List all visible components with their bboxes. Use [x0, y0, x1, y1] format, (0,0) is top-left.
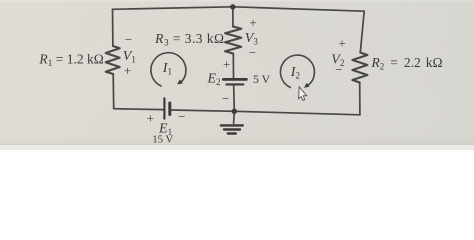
svg-text:−: −	[335, 62, 342, 77]
svg-text:+: +	[249, 15, 256, 30]
mouse cursor	[298, 87, 307, 101]
svg-text:−: −	[222, 91, 229, 106]
wire E1 to bottom junction	[171, 110, 234, 111]
ground bar 2	[224, 128, 240, 130]
svg-text:+: +	[338, 36, 345, 51]
svg-text:R3 = 3.3 kΩ: R3 = 3.3 kΩ	[154, 31, 224, 49]
svg-text:+: +	[147, 111, 154, 126]
svg-text:V1: V1	[123, 49, 136, 65]
svg-text:−: −	[249, 45, 256, 60]
wire left vertical upper	[112, 9, 114, 46]
ground stub	[233, 111, 236, 123]
battery E2 long plate	[223, 78, 246, 81]
ground bar 1	[221, 124, 243, 126]
junction node bottom	[232, 109, 237, 114]
mesh current loop I1	[151, 53, 186, 86]
battery E2 short plate	[226, 83, 243, 85]
ground bar 3	[228, 132, 236, 134]
resistor R1	[106, 46, 120, 74]
wire top-left to junction	[113, 7, 233, 10]
svg-text:+: +	[124, 63, 131, 78]
svg-text:R2=2.2kΩ: R2=2.2kΩ	[371, 55, 443, 72]
svg-text:5 V: 5 V	[253, 72, 271, 86]
battery E1 short plate	[168, 103, 171, 115]
wire left vertical lower	[112, 74, 115, 109]
wire bottom junction to bottom-right corner	[234, 111, 360, 115]
svg-text:I1: I1	[162, 61, 172, 77]
junction node top	[230, 4, 235, 9]
svg-text:E2: E2	[207, 71, 221, 87]
wire right vertical lower	[359, 83, 361, 115]
svg-text:+: +	[223, 57, 230, 72]
resistor R2	[352, 53, 367, 83]
wire right vertical upper	[360, 11, 364, 52]
svg-text:−: −	[178, 109, 185, 124]
svg-text:R1 = 1.2 kΩ: R1 = 1.2 kΩ	[38, 52, 103, 70]
mesh current loop I2	[280, 55, 314, 87]
svg-text:I2: I2	[290, 65, 300, 81]
svg-text:−: −	[125, 32, 132, 47]
resistor R3	[225, 27, 241, 54]
wire top junction to top-right corner	[233, 7, 364, 11]
wire E2 to bottom junction	[233, 86, 236, 111]
wire top junction down to R3	[232, 7, 234, 27]
wire bottom-left to E1	[114, 108, 164, 111]
wire R3 to E2	[232, 54, 234, 78]
arrowhead of I2	[304, 83, 310, 88]
arrowhead of I1	[177, 79, 183, 84]
svg-text:15 V: 15 V	[152, 134, 173, 146]
battery E1 long plate	[163, 98, 165, 118]
